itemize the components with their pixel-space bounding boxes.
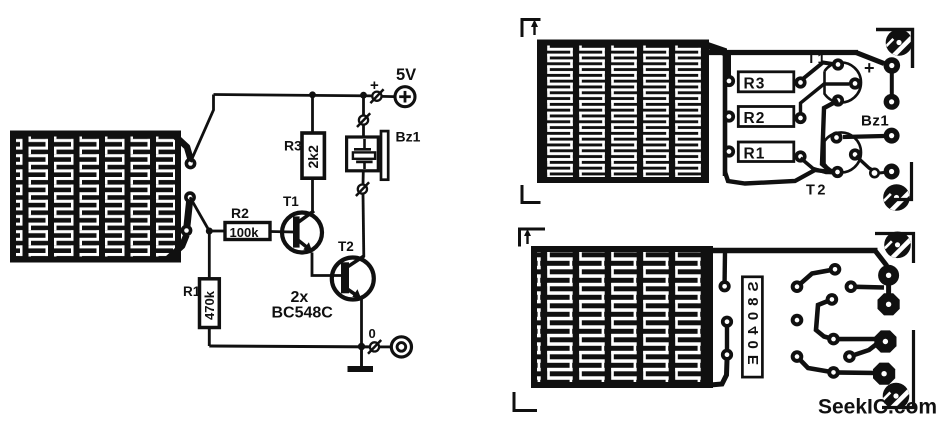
pcb1 T2 pads (830, 131, 861, 178)
pcb1 screw hole bottom-right (881, 182, 912, 213)
pcb1 R2 right pad (794, 112, 806, 124)
resistor R2 (225, 223, 270, 240)
sensor exit trace bottom (167, 235, 187, 260)
wire T2 emitter to ground rail (360, 298, 363, 347)
pcb2 top trace (706, 248, 878, 253)
pcb2 pad D octagon (873, 363, 895, 385)
pcb2 trace to pad A (875, 251, 887, 267)
svg-text:R2: R2 (744, 110, 766, 127)
connector symbol above buzzer (357, 113, 370, 127)
sensor pad 1 (185, 158, 197, 170)
pcb1 pad column trace (890, 70, 894, 95)
svg-text:5V: 5V (396, 66, 416, 84)
sensor comb electrode (moisture sensor grid) (10, 131, 181, 263)
corner mark top-right 2 (875, 234, 914, 264)
pcb1 ring pad stub (879, 171, 884, 175)
pcb2 pad p6 (827, 333, 840, 346)
pcb2 pad p9 (827, 366, 840, 379)
svg-text:R3: R3 (284, 138, 302, 154)
buzzer Bz1 (347, 131, 389, 180)
svg-text:T1: T1 (283, 194, 299, 209)
wire T1 emitter to T2 base (312, 253, 342, 276)
wire buzzer top from rail (362, 95, 365, 115)
svg-text:+: + (864, 58, 875, 78)
pcb2 pad p4 (826, 293, 839, 306)
pcb1 R3 right pad (794, 76, 806, 88)
svg-text:S8040E: S8040E (745, 282, 762, 371)
resistor R3 (302, 133, 324, 178)
sensor pad link bar (187, 197, 191, 230)
wire to 5V terminal (382, 95, 395, 98)
pcb1 resistor outline R1 (738, 142, 794, 163)
node ground junction (358, 343, 365, 350)
pcb1 trace R3 to T1 (802, 63, 837, 81)
pcb2 pad s1 (719, 280, 731, 292)
svg-text:R2: R2 (231, 205, 249, 221)
sensor pad 3 (181, 225, 193, 237)
pcb1 resistor outline R2 (738, 107, 794, 128)
pcb1 transistor outline T2 (825, 133, 862, 173)
pcb2 pad s3 (721, 349, 733, 361)
wire R2 to T1 base (270, 230, 294, 233)
svg-text:SeekIC.com: SeekIC.com (818, 396, 937, 419)
sensor exit trace top (174, 135, 191, 159)
svg-text:R1: R1 (183, 284, 201, 299)
svg-text:T2: T2 (338, 239, 354, 254)
pcb1 trace R1 to T2 (801, 158, 835, 173)
pcb2 pad A-B trace (886, 280, 891, 298)
pcb2 pad p8 (791, 350, 804, 363)
pcb1 pad 3 (884, 128, 900, 144)
pcb2 screw hole bottom-right (881, 381, 912, 412)
svg-text:T2: T2 (806, 183, 828, 199)
pcb1 R1 left pad (723, 145, 735, 157)
pcb1 R1 right pad (794, 150, 806, 162)
corner mark bottom-right 2 (882, 330, 914, 408)
node rail-R3 junction (309, 91, 316, 98)
pcb2 bottom trace ext (710, 360, 727, 385)
connector symbol 5V (370, 89, 383, 103)
pcb1 resistor outline R3 (738, 72, 794, 93)
terminal 0 (391, 337, 411, 357)
resistor R1 wire top (208, 231, 211, 279)
corner mark top-left (522, 20, 541, 38)
pcb2 trace p8-p9 (797, 357, 834, 373)
pcb1 trace T2 to Bz1 pad (843, 136, 884, 137)
pcb2 stub (722, 252, 727, 281)
node base junction (206, 228, 213, 235)
ground (348, 347, 374, 372)
pcb2 pad p1 (829, 263, 842, 276)
corner mark top-left 2 (520, 229, 546, 247)
wire buzzer to T2 collector (362, 194, 366, 257)
pcb1 transistor outline T1 (825, 63, 862, 103)
pcb2 pad p3 (845, 280, 858, 293)
node rail-buzzer junction (360, 92, 367, 99)
pcb2 trace p7 (849, 343, 878, 357)
transistor T2 (332, 256, 374, 300)
pcb2 C trace p4-p6 (816, 299, 834, 339)
svg-text:R1: R1 (744, 146, 766, 163)
svg-text:+: + (370, 77, 379, 94)
pcb1 ring pad (870, 169, 878, 177)
pcb1 plus pad (884, 57, 901, 74)
pcb2 pad p7 (843, 350, 856, 363)
pcb2 pad p5 (791, 314, 804, 327)
pcb1 R2 left pad (723, 110, 735, 122)
pcb2 trace p3 right (851, 284, 884, 289)
pcb2 pad s2 (721, 316, 733, 328)
pcb2 trace p2-p1 (797, 269, 835, 286)
pcb2 pad p2 (791, 280, 804, 293)
svg-text:100k: 100k (230, 225, 260, 240)
corner mark bottom-left (522, 185, 541, 203)
wire top supply rail (214, 95, 373, 96)
pcb1 pad 2 (884, 94, 900, 110)
pcb2 trace p9 right (834, 370, 878, 375)
corner mark top-right (876, 30, 913, 69)
wire buzzer bottom (362, 171, 365, 185)
corner mark bottom-right (894, 162, 912, 200)
connector symbol 0 (368, 340, 381, 354)
wire R3 bottom to T1 collector (311, 178, 314, 211)
svg-text:T1: T1 (807, 50, 827, 66)
pcb1 corner fill to trace (701, 40, 727, 58)
svg-text:470k: 470k (202, 290, 217, 320)
pcb2 pad s2-s3 trace (725, 322, 729, 355)
svg-text:Bz1: Bz1 (396, 129, 421, 145)
pcb1 trace T2 mid to ring pad (856, 156, 873, 171)
pcb1 top supply trace (707, 50, 858, 55)
pcb1 pad 4 (884, 164, 900, 180)
pcb1 screw hole top-right (884, 27, 915, 58)
wire R1 bottom (208, 328, 211, 347)
pcb1 vertical trace (723, 53, 728, 177)
svg-text:2k2: 2k2 (305, 145, 321, 169)
resistor R1 (200, 279, 220, 328)
transistor T1 (282, 211, 322, 253)
pcb2 trace p6 right (834, 337, 881, 342)
sensor pad 2 (184, 191, 196, 203)
svg-text:R3: R3 (744, 76, 766, 93)
pcb2 pad A (878, 265, 899, 286)
pcb2 pad C octagon (874, 330, 896, 352)
wire R3 top (311, 95, 314, 134)
orientation arrow 2 (524, 229, 531, 244)
orientation arrow (531, 20, 538, 36)
pcb2 label S8040E box (742, 277, 762, 377)
pcb2 screw hole top-right (882, 229, 913, 260)
pcb1 R3 stub (727, 53, 731, 77)
pcb1 trace R2 to T1 base (801, 84, 850, 115)
pcb1 bottom elbow trace (725, 170, 834, 184)
pcb1 sensor comb (537, 40, 709, 184)
pcb2 pad B octagon (878, 293, 900, 315)
wire sensor pad2 to base node (190, 197, 209, 231)
terminal 5V (395, 87, 415, 107)
wire R2 left (209, 230, 225, 233)
connector symbol below buzzer (356, 182, 369, 196)
svg-text:0: 0 (369, 326, 376, 341)
wire bottom ground rail (209, 345, 372, 349)
pcb1 trace to plus pad (856, 53, 884, 64)
svg-text:Bz1: Bz1 (861, 113, 889, 130)
pcb1 trace T1 emitter to T2 (822, 101, 838, 173)
pcb1 T1 pads (832, 58, 861, 106)
wire to 0 terminal (379, 345, 391, 348)
corner mark bottom-left 2 (514, 392, 537, 411)
wire connector to buzzer (362, 125, 365, 137)
svg-text:2x: 2x (291, 289, 309, 306)
wire sensor pad1 to top rail (191, 95, 214, 163)
pcb1 R3 left pad (723, 75, 735, 87)
svg-text:BC548C: BC548C (272, 305, 334, 322)
pcb2 sensor comb (531, 246, 713, 388)
